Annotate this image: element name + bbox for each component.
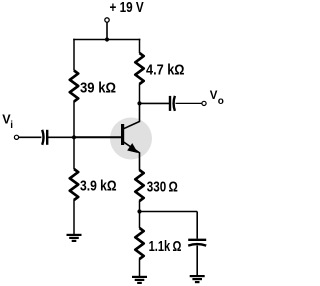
transistor Q1 body circle [110,118,152,160]
wire emitter node to bypass branch [140,211,198,213]
svg-text:39 kΩ: 39 kΩ [80,81,116,97]
output terminal [202,101,206,105]
wire C2 to Vo [176,102,203,104]
wire R4 to emitter node [139,201,141,212]
resistor R3 4.7k zigzag [135,53,143,84]
resistor R1 39k zigzag [70,71,78,102]
transistor Q1 base bar [121,124,124,145]
wire collector node to C2 [140,102,171,104]
ground G1 [67,235,82,241]
wire R5 to ground [139,259,141,277]
wire emitter node down [139,212,141,229]
transistor Q1 emitter arrow [128,144,137,152]
svg-text:1.1k Ω: 1.1k Ω [149,239,182,255]
capacitor C2 output coupling [170,96,175,111]
transistor Q1 base lead wire [74,136,121,138]
wire bypass branch down [196,212,198,239]
svg-text:3.9 kΩ: 3.9 kΩ [80,179,117,195]
wire R3 to collector node [139,84,141,104]
capacitor C3 emitter bypass [188,240,206,246]
wire R2 to ground [73,200,75,235]
ground G2 [132,277,147,283]
resistor R4 330 zigzag [135,170,143,201]
wire top rail [73,39,140,41]
resistor R2 3.9k zigzag [70,169,78,200]
wire R1 to base node [73,101,75,137]
svg-text:+ 19 V: + 19 V [110,0,144,16]
svg-text:4.7 kΩ: 4.7 kΩ [146,63,185,79]
node emitter junction [137,209,141,213]
transistor Q1 collector lead [124,103,140,128]
transistor Q1 emitter lead [124,142,140,171]
svg-text:330 Ω: 330 Ω [147,180,178,196]
wire Vi to C1 [19,136,42,138]
svg-text:i: i [10,120,13,131]
supply terminal [105,18,109,22]
node collector junction [137,101,141,105]
wire supply down [106,22,108,39]
capacitor C1 input coupling [42,130,47,145]
ground G3 [190,276,205,282]
wire C1 to base node [47,136,74,138]
node base junction [72,135,76,139]
wire left branch top [73,39,75,71]
svg-text:V: V [210,90,218,102]
wire right branch top [139,39,141,53]
svg-text:o: o [218,96,224,107]
node supply junction [105,37,109,41]
wire C3 to ground [196,246,198,276]
wire base node down [73,137,75,169]
input terminal [14,135,18,139]
resistor R5 1.1k zigzag [135,228,143,259]
